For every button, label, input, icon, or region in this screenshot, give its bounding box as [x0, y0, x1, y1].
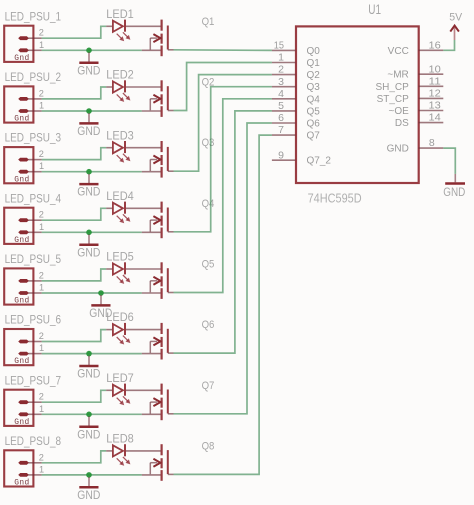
svg-text:1: 1	[39, 464, 44, 474]
svg-text:GND: GND	[77, 489, 100, 502]
svg-text:LED4: LED4	[106, 189, 134, 203]
svg-text:~MR: ~MR	[387, 70, 408, 81]
svg-text:LED3: LED3	[106, 128, 134, 142]
svg-text:15: 15	[274, 40, 284, 52]
svg-text:16: 16	[429, 39, 441, 51]
svg-text:LED_PSU_8: LED_PSU_8	[5, 434, 62, 448]
svg-text:LED_PSU_7: LED_PSU_7	[5, 373, 62, 387]
svg-text:ST_CP: ST_CP	[377, 94, 410, 105]
svg-text:Gnd: Gnd	[14, 479, 29, 488]
svg-text:7: 7	[278, 124, 284, 136]
svg-text:Q3: Q3	[202, 137, 215, 149]
svg-text:1: 1	[39, 222, 44, 232]
svg-text:Gnd: Gnd	[14, 297, 29, 306]
svg-text:6: 6	[278, 112, 284, 124]
svg-text:5V: 5V	[449, 12, 462, 24]
svg-text:Q7_2: Q7_2	[307, 156, 332, 167]
svg-text:12: 12	[429, 88, 441, 100]
svg-text:2: 2	[39, 88, 44, 98]
svg-text:Q1: Q1	[202, 16, 215, 28]
svg-text:2: 2	[39, 392, 44, 402]
svg-text:Q7: Q7	[202, 380, 215, 392]
svg-text:LED_PSU_2: LED_PSU_2	[5, 70, 62, 84]
svg-text:LED7: LED7	[106, 371, 134, 385]
svg-text:Q1: Q1	[307, 58, 321, 69]
svg-text:2: 2	[39, 452, 44, 462]
svg-text:GND: GND	[443, 186, 465, 199]
svg-text:LED_PSU_1: LED_PSU_1	[5, 9, 62, 23]
svg-text:GND: GND	[77, 368, 100, 381]
svg-text:Gnd: Gnd	[14, 54, 29, 63]
svg-text:Q7: Q7	[307, 131, 321, 142]
svg-text:Gnd: Gnd	[14, 418, 29, 427]
svg-text:LED_PSU_3: LED_PSU_3	[5, 131, 62, 145]
svg-text:Q8: Q8	[202, 440, 215, 452]
svg-text:U1: U1	[368, 2, 381, 17]
svg-text:GND: GND	[77, 428, 100, 441]
svg-text:GND: GND	[77, 186, 100, 199]
svg-text:LED_PSU_4: LED_PSU_4	[5, 191, 62, 205]
svg-text:SH_CP: SH_CP	[375, 82, 409, 93]
svg-text:3: 3	[278, 76, 284, 88]
svg-text:GND: GND	[77, 64, 100, 77]
svg-text:LED_PSU_6: LED_PSU_6	[5, 313, 62, 327]
svg-text:74HC595D: 74HC595D	[308, 190, 362, 205]
svg-text:Q6: Q6	[307, 119, 321, 130]
svg-text:2: 2	[39, 149, 44, 159]
svg-text:1: 1	[39, 343, 44, 353]
svg-text:1: 1	[39, 283, 44, 293]
svg-text:1: 1	[39, 404, 44, 414]
svg-text:LED_PSU_5: LED_PSU_5	[5, 252, 62, 266]
svg-text:14: 14	[429, 112, 441, 124]
svg-text:10: 10	[429, 63, 441, 75]
svg-text:~OE: ~OE	[389, 106, 410, 117]
svg-text:Q0: Q0	[307, 46, 321, 57]
svg-text:LED1: LED1	[106, 7, 134, 21]
svg-text:Gnd: Gnd	[14, 115, 29, 124]
svg-text:9: 9	[278, 149, 284, 161]
svg-text:LED6: LED6	[106, 310, 134, 324]
svg-text:1: 1	[278, 52, 284, 64]
svg-text:LED8: LED8	[106, 432, 134, 446]
svg-text:DS: DS	[395, 118, 409, 129]
svg-text:GND: GND	[77, 246, 100, 259]
svg-text:11: 11	[429, 75, 441, 87]
svg-text:Q5: Q5	[307, 106, 321, 117]
svg-text:Q3: Q3	[307, 82, 321, 93]
svg-text:Gnd: Gnd	[14, 175, 29, 184]
svg-text:1: 1	[39, 101, 44, 111]
svg-text:8: 8	[429, 137, 435, 149]
svg-text:GND: GND	[387, 144, 409, 155]
svg-text:Q6: Q6	[202, 319, 215, 331]
svg-text:Gnd: Gnd	[14, 357, 29, 366]
svg-text:1: 1	[39, 40, 44, 50]
svg-text:2: 2	[39, 270, 44, 280]
svg-text:Q5: Q5	[202, 259, 215, 271]
svg-text:Q4: Q4	[307, 94, 321, 105]
svg-text:LED5: LED5	[106, 250, 134, 264]
svg-text:LED2: LED2	[106, 68, 134, 82]
svg-text:2: 2	[39, 331, 44, 341]
svg-text:GND: GND	[77, 125, 100, 138]
svg-text:2: 2	[39, 28, 44, 38]
svg-text:2: 2	[39, 210, 44, 220]
svg-text:4: 4	[278, 88, 284, 100]
svg-text:5: 5	[278, 100, 284, 112]
svg-text:13: 13	[429, 100, 441, 112]
svg-text:Q2: Q2	[307, 70, 321, 81]
svg-text:Gnd: Gnd	[14, 236, 29, 245]
svg-text:2: 2	[278, 64, 284, 76]
svg-text:VCC: VCC	[388, 46, 409, 57]
svg-text:Q4: Q4	[202, 198, 215, 210]
svg-text:1: 1	[39, 161, 44, 171]
